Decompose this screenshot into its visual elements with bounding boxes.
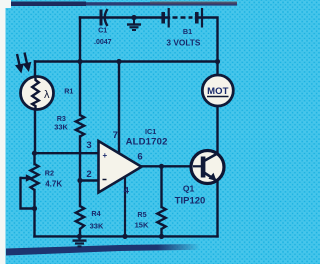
svg-text:R4: R4 [91,209,100,218]
wire: pin 7 vertical [118,62,120,154]
ground (bottom) [73,236,87,246]
svg-text:C1: C1 [98,26,107,35]
wire: R1 leg [34,62,36,154]
battery B1 [163,8,202,28]
node: bottom rail / pin 4 junction [122,234,127,239]
ground (top, at battery minus) [127,18,141,31]
wire: right vertical (MOT / Q1) [216,62,218,155]
node: top rail / ground junction [131,15,136,20]
wire: battery dashed link [173,16,193,18]
wire: bottom rail [35,235,218,237]
node: V+ rail / pin 7 junction [116,59,121,64]
photoresistor R1 [21,77,54,110]
wire: pin 2 wire [80,179,99,181]
wire: pin 3 rail [35,152,99,154]
svg-text:R1: R1 [64,87,73,96]
node: bottom rail / ground junction [77,234,82,239]
svg-text:4.7K: 4.7K [45,179,62,188]
node: V+ rail / battery junction [215,59,220,64]
wire: pot leg [33,153,35,164]
svg-text:TIP120: TIP120 [175,196,206,207]
svg-text:33K: 33K [90,221,104,230]
svg-text:3: 3 [86,140,91,151]
wire: pot wiper loop [21,177,27,179]
svg-text:λ: λ [44,89,50,101]
wire: output wire pin 6 [142,165,194,167]
svg-text:4: 4 [124,186,130,197]
svg-text:ALD1702: ALD1702 [126,137,168,148]
light arrows [17,53,30,71]
svg-text:7: 7 [113,130,118,141]
svg-text:2: 2 [86,169,91,180]
svg-text:Q1: Q1 [183,184,195,194]
node: pin 2 / divider junction [77,178,82,183]
svg-text:B1: B1 [183,27,192,36]
capacitor C1 [101,9,108,26]
wire: R3/R4 divider vertical [79,62,81,116]
svg-text:33K: 33K [54,122,68,131]
svg-text:6: 6 [137,151,142,162]
resistor R5 [157,207,165,229]
transistor Q1 [191,151,224,184]
motor MOT [202,75,233,106]
resistor R3 [76,115,84,137]
wire: R5 leg [160,166,162,207]
svg-text:R2: R2 [45,168,54,177]
svg-text:15K: 15K [135,220,149,229]
svg-text:+: + [102,151,107,160]
node: pot wiper return junction [32,206,37,211]
wire: left vertical x=80 top (to V+ rail) [79,18,81,62]
wire: pin 4 vertical [124,177,126,237]
wire: V+ rail [35,60,218,62]
svg-text:IC1: IC1 [145,127,156,136]
op-amp U1 (IC1 ALD1702) [99,141,142,193]
svg-text:.0047: .0047 [94,39,112,46]
wire: top rail left section [80,16,169,18]
svg-text:MOT: MOT [207,86,229,97]
svg-text:R5: R5 [137,210,146,219]
resistor R4 [76,206,84,229]
node: bottom rail / R5 junction [159,234,164,239]
wire: top rail right section [196,18,218,62]
scan edge: top dark rule [11,2,237,5]
node: R1 / pot / pin 3 junction [32,151,37,156]
scan edge: left white strip [0,0,6,264]
node: output / R5 junction [159,164,164,169]
potentiometer R2 [31,164,39,190]
svg-text:3 VOLTS: 3 VOLTS [166,37,200,47]
node: V+ rail / R3 junction [77,59,82,64]
